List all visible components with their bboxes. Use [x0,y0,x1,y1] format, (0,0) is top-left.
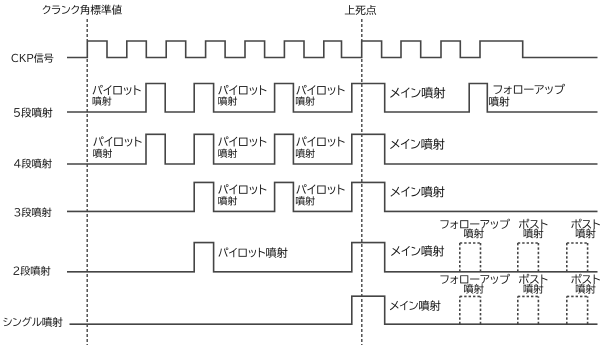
label text "フォローアップ" [440,274,510,284]
single injection waveform [70,296,598,324]
2-stage dashed post 2 pulse [567,243,588,272]
label text "メイン噴射" [390,87,445,99]
label text "噴射" [296,96,315,105]
label text "パイロット" [93,136,141,146]
label TDC [345,5,376,15]
label text "パイロット" [218,85,266,95]
label text "フォローアップ" [494,84,565,94]
label text "噴射" [93,96,112,105]
label 2-stage injection [13,266,50,276]
2-stage dashed follow-up pulse [460,243,481,272]
label text "ポスト" [571,274,600,284]
2-stage dashed post 1 pulse [518,243,539,272]
label text "メイン噴射" [390,138,444,149]
label CKP signal [11,53,53,63]
label text "噴射" [489,96,509,106]
label single injection [3,317,62,327]
label text "パイロット" [296,85,344,95]
label text "噴射" [464,284,484,294]
label text "パイロット" [218,184,266,194]
label text "噴射" [576,284,596,294]
label text "ポスト" [571,219,600,229]
label text "噴射" [218,96,237,105]
4-stage injection waveform [67,134,598,164]
label text "パイロット" [296,184,344,194]
label text "ポスト" [519,219,548,229]
CKP signal waveform [67,41,598,58]
label crank angle reference [43,5,122,15]
label text "パイロット噴射" [218,247,287,258]
label text "噴射" [296,149,315,158]
label text "メイン噴射" [390,300,441,311]
label 4-stage injection [14,159,52,169]
crank-angle reference dashed line [86,19,88,345]
label text "パイロット" [296,136,344,146]
single dashed post 2 pulse [567,296,588,324]
label text "噴射" [524,229,544,239]
5-stage injection waveform [67,84,598,113]
label text "噴射" [464,229,484,239]
label text "パイロット" [218,136,266,146]
label text "フォローアップ" [440,219,510,229]
label text "噴射" [218,196,237,205]
3-stage injection waveform [67,182,598,211]
label text "噴射" [576,229,596,239]
TDC dashed line [361,19,363,345]
label text "メイン噴射" [390,186,444,197]
label text "パイロット" [93,85,141,95]
label text "ポスト" [519,274,548,284]
label text "噴射" [93,149,112,158]
label 5-stage injection [14,107,52,117]
label text "噴射" [218,149,237,158]
single dashed follow-up pulse [460,296,481,324]
single dashed post 1 pulse [518,296,539,324]
label 3-stage injection [14,207,51,217]
label text "噴射" [524,284,544,294]
label text "噴射" [296,196,315,205]
label text "メイン噴射" [391,245,444,256]
2-stage injection waveform [67,243,598,272]
